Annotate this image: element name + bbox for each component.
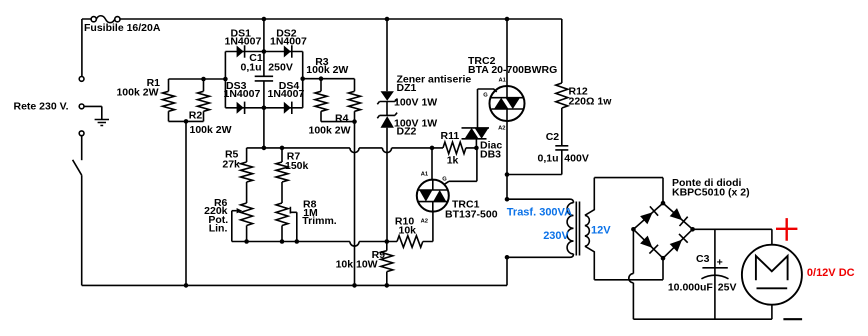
transformer core <box>576 202 579 256</box>
node pot R6 bottom <box>244 239 249 244</box>
node bridge left <box>631 227 636 232</box>
svg-text:100k 2W: 100k 2W <box>116 86 158 98</box>
node net148 x TRC1 A1 <box>430 146 435 151</box>
bridge diode bottom-left <box>640 236 652 248</box>
node bridge right mid <box>300 76 305 81</box>
triac TRC2 <box>490 86 525 121</box>
svg-text:100V 1W: 100V 1W <box>394 96 437 108</box>
switch S1 <box>81 136 83 160</box>
wire diac to TRC2 gate <box>478 89 497 92</box>
svg-text:100k 2W: 100k 2W <box>306 64 348 76</box>
zener DZ2 <box>381 116 394 128</box>
svg-text:Trasf. 300VA: Trasf. 300VA <box>507 206 572 218</box>
svg-text:A1: A1 <box>499 78 507 84</box>
svg-text:220Ω 1w: 220Ω 1w <box>569 96 613 108</box>
wire secondary top to bridge <box>594 178 663 204</box>
hop over R4 column <box>350 148 359 153</box>
node bridge bottom <box>661 256 666 261</box>
wire bridge left <box>224 52 226 108</box>
svg-text:BT137-500: BT137-500 <box>445 208 498 220</box>
ground <box>95 120 109 126</box>
resistor R12 <box>556 83 568 146</box>
wire bridge top <box>225 51 302 53</box>
wire motor top lead <box>771 229 773 244</box>
node net148 x C1 column <box>262 146 267 151</box>
R8 tap <box>290 207 296 242</box>
node net148 x R7 <box>280 146 285 151</box>
svg-text:1N4007: 1N4007 <box>225 35 262 47</box>
svg-text:Rete 230 V.: Rete 230 V. <box>14 101 69 113</box>
wire R1R2 top <box>169 78 226 80</box>
node R8 tap bottom <box>295 239 300 244</box>
capacitor C3 <box>714 229 716 319</box>
potentiometer R6 <box>241 203 253 242</box>
node R2 top <box>201 77 206 82</box>
wire C1 column lower <box>263 81 265 148</box>
svg-text:12V: 12V <box>591 225 611 237</box>
wire R1R2 bottom <box>169 120 204 122</box>
minus output marker <box>783 318 802 320</box>
diode DS4 <box>284 102 291 114</box>
wire bottom rail <box>82 257 507 285</box>
svg-text:Lin.: Lin. <box>209 223 228 235</box>
resistor R7 <box>276 148 288 203</box>
terminal lower <box>79 131 84 136</box>
wire minus column <box>632 229 634 273</box>
wire drop to bottom rail <box>185 121 187 285</box>
svg-text:27k: 27k <box>222 158 240 170</box>
wire TRC1 gate <box>444 148 477 184</box>
diode DS3 <box>237 102 244 114</box>
svg-text:G: G <box>483 93 488 99</box>
wire bridge right to R4 <box>303 78 355 80</box>
fuse F1 Fusibile 16/20A <box>91 17 96 22</box>
hop over R4 column 2 <box>350 242 359 247</box>
svg-text:10k: 10k <box>399 224 417 236</box>
wire motor bottom lead <box>771 305 773 320</box>
svg-text:0,1u: 0,1u <box>537 152 558 164</box>
hop over zener column <box>382 148 391 153</box>
svg-text:A1: A1 <box>421 172 429 178</box>
wire between zeners <box>386 102 388 116</box>
node top rail x TRC2 column <box>505 17 510 22</box>
wire primary top <box>507 199 574 203</box>
wire switch to bottom rail <box>81 175 83 285</box>
node primary bottom x rail riser <box>505 255 510 260</box>
wire zener column bottom <box>386 128 388 242</box>
hop minus over ac wire <box>629 274 634 283</box>
resistor R4 <box>349 79 361 122</box>
wire C1 column upper <box>263 19 265 76</box>
node bridge top <box>661 201 666 206</box>
svg-text:R2: R2 <box>189 110 203 122</box>
svg-text:G: G <box>442 177 447 183</box>
capacitor C2 <box>555 146 568 150</box>
diode DS1 <box>237 46 244 58</box>
wire zener column top <box>386 19 388 91</box>
svg-text:BTA 20-700BWRG: BTA 20-700BWRG <box>468 64 557 76</box>
svg-text:25V: 25V <box>718 281 737 293</box>
node bottom rail x R1R2 drop <box>184 283 189 288</box>
node bottom rail x R4 column <box>352 283 357 288</box>
node TRC2 A2 x C2 wire <box>505 172 510 177</box>
R6 wiper arrow <box>232 210 237 212</box>
svg-text:DZ2: DZ2 <box>397 125 417 137</box>
node C1 bottom x bridge <box>262 106 267 111</box>
node top rail x zener column <box>385 17 390 22</box>
svg-text:DZ1: DZ1 <box>397 82 417 94</box>
resistor R11 <box>443 142 476 154</box>
wire C2 bottom <box>507 150 562 175</box>
terminal upper live <box>79 77 84 82</box>
svg-text:10.000uF: 10.000uF <box>668 281 714 293</box>
resistor R5 <box>241 148 253 203</box>
node bridge right <box>690 227 695 232</box>
svg-text:150k: 150k <box>285 160 309 172</box>
svg-text:Fusibile 16/20A: Fusibile 16/20A <box>84 22 161 34</box>
wire top rail <box>120 18 562 20</box>
svg-text:400V: 400V <box>564 152 589 164</box>
svg-text:A2: A2 <box>498 125 505 131</box>
svg-text:10k 10W: 10k 10W <box>336 259 378 271</box>
node C1 top x bridge <box>262 49 267 54</box>
node gate net x zener/R9 <box>385 239 390 244</box>
svg-text:1N4007: 1N4007 <box>270 35 307 47</box>
svg-text:KBPC5010 (x 2): KBPC5010 (x 2) <box>672 186 750 198</box>
svg-text:100k 2W: 100k 2W <box>309 125 351 137</box>
node R8 bottom <box>280 239 285 244</box>
svg-text:C2: C2 <box>546 131 560 143</box>
node R4 bottom <box>352 119 357 124</box>
triac TRC1 <box>417 180 449 212</box>
wire bridge right <box>302 52 304 108</box>
resistor R2 <box>198 79 210 121</box>
svg-text:250V: 250V <box>268 62 293 74</box>
node R1R2 bottom drop <box>184 119 189 124</box>
node bridge left mid <box>223 77 228 82</box>
svg-text:DB3: DB3 <box>480 148 501 160</box>
svg-text:+: + <box>717 257 723 269</box>
svg-text:230V: 230V <box>543 230 569 242</box>
diode DS2 <box>284 46 291 58</box>
bridge diamond <box>633 203 692 258</box>
wire pots bottom right <box>359 241 397 243</box>
svg-text:R11: R11 <box>441 130 460 142</box>
primary coil 230V <box>567 203 573 254</box>
wire plus rail <box>693 228 772 230</box>
motor M <box>742 245 802 305</box>
resistor R10 <box>397 236 433 248</box>
wire net148 right <box>392 147 443 149</box>
svg-text:Trimm.: Trimm. <box>302 215 337 227</box>
wire R4 column down <box>354 122 356 286</box>
svg-text:0/12V DC: 0/12V DC <box>807 267 855 279</box>
wire TRC2 A1 lead <box>506 19 508 98</box>
node TRC2 A2 x primary top <box>505 197 510 202</box>
wire to ground <box>84 106 102 119</box>
plus output marker <box>776 218 797 241</box>
diac DB3 <box>475 139 477 148</box>
wire minus column lower <box>633 283 772 319</box>
wire net148 left <box>247 147 350 149</box>
bridge diode top-right <box>670 208 683 220</box>
wire R10 to TRC1 A2 <box>432 212 434 242</box>
resistor R1 <box>163 79 175 121</box>
wire net148 mid <box>359 147 382 149</box>
secondary coil 12V <box>585 178 594 216</box>
svg-text:R4: R4 <box>335 112 349 124</box>
bridge diode top-left <box>640 212 653 224</box>
svg-text:1N4007: 1N4007 <box>268 88 305 100</box>
zener DZ1 <box>381 91 394 101</box>
wire R3R4 bottom <box>321 121 355 123</box>
node R3 top <box>319 76 324 81</box>
wire secondary bottom to bridge <box>594 258 663 280</box>
svg-text:1k: 1k <box>447 154 459 166</box>
capacitor C1 <box>255 76 273 81</box>
wire top-left corner to fuse <box>82 19 91 76</box>
node bottom rail x R9 <box>385 283 390 288</box>
wire R12 top <box>561 19 563 83</box>
wire TRC1 A1 lead <box>431 148 433 180</box>
node top rail x C1 column <box>262 17 267 22</box>
svg-text:0,1u: 0,1u <box>240 62 261 74</box>
svg-text:C3: C3 <box>696 253 710 265</box>
bridge diode bottom-right <box>670 240 682 252</box>
svg-text:1N4007: 1N4007 <box>224 88 261 100</box>
wire bridge bottom <box>225 107 302 109</box>
wire pots bottom <box>232 241 350 243</box>
wire primary bottom <box>507 254 574 257</box>
node diac bottom <box>474 146 479 151</box>
resistor R3 <box>315 79 327 122</box>
resistor R9 <box>381 242 393 286</box>
svg-text:A2: A2 <box>421 219 428 225</box>
trimmer R8 <box>276 203 288 242</box>
terminal mid live <box>79 104 84 109</box>
svg-text:100k 2W: 100k 2W <box>190 124 232 136</box>
